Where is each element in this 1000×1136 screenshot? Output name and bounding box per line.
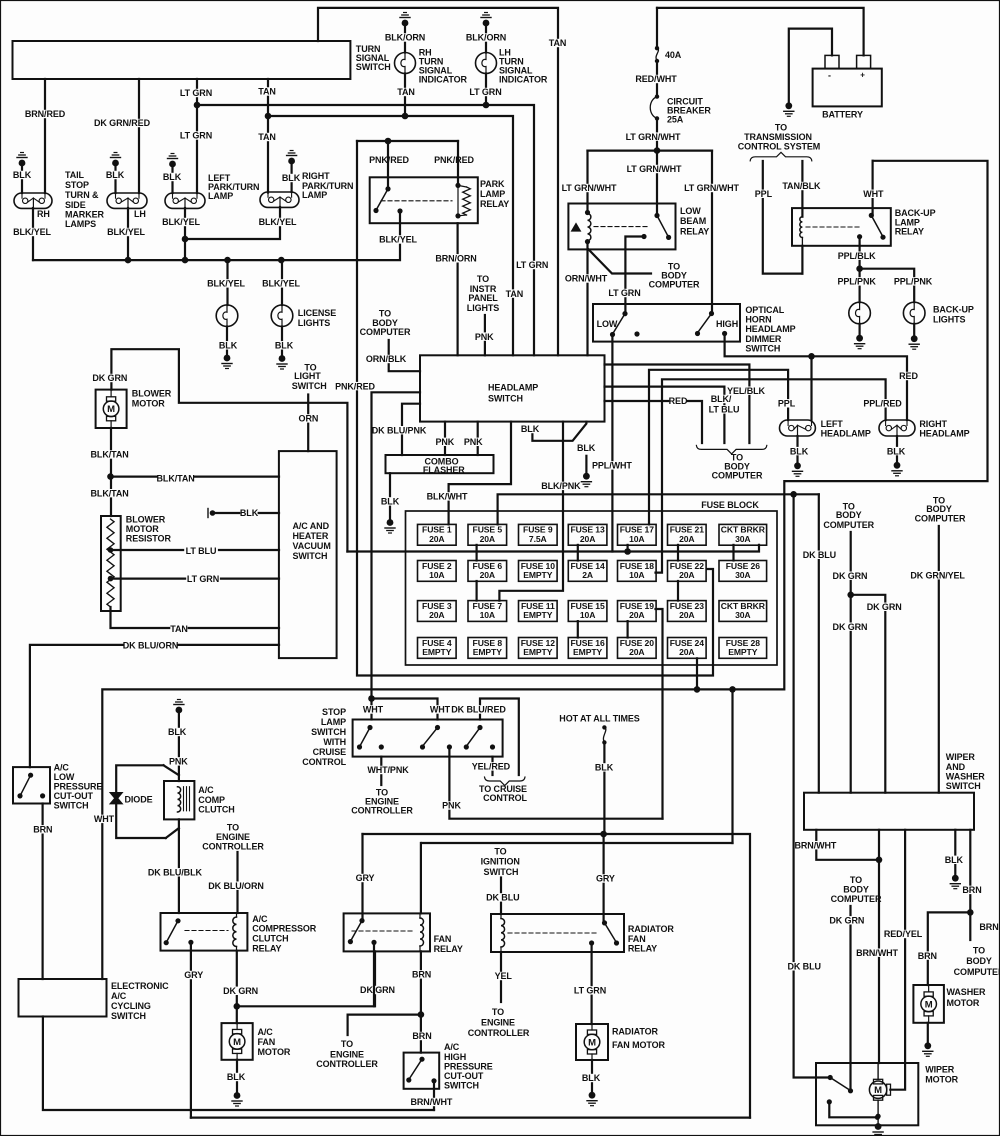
svg-text:A/C: A/C (54, 763, 70, 773)
battery box (813, 69, 882, 107)
wire PPL/PNK left (837, 269, 876, 303)
wire LT GRN below LH indicator (469, 74, 503, 106)
svg-text:ORN: ORN (299, 414, 319, 424)
label TO BODY COMPUTER dk grn (823, 502, 874, 531)
svg-text:BODY: BODY (843, 885, 869, 895)
node high beam (808, 353, 815, 360)
svg-text:COMPUTER: COMPUTER (831, 894, 882, 904)
ac fan relay dashed (352, 930, 412, 932)
svg-text:TO: TO (494, 847, 506, 857)
ac low pressure contacts (17, 773, 45, 799)
node RH indicator join (402, 113, 409, 120)
svg-text:DK GRN: DK GRN (360, 985, 395, 995)
combo flasher box (386, 455, 494, 473)
svg-text:A/C AND: A/C AND (293, 521, 330, 531)
svg-text:DK GRN: DK GRN (829, 916, 864, 926)
wire BRN wiper (962, 830, 981, 913)
radiator fan motor (576, 1024, 608, 1060)
diode loop (116, 765, 179, 838)
wire BRN/WHT wiper motor (856, 830, 898, 1063)
svg-text:10A: 10A (480, 610, 495, 620)
wire BLK license 2 (275, 327, 294, 356)
ground lamp LH (111, 153, 121, 194)
svg-text:30A: 30A (735, 610, 750, 620)
svg-text:MARKER: MARKER (65, 210, 104, 220)
svg-text:BLK/ORN: BLK/ORN (385, 33, 425, 43)
ground ac fan (232, 1092, 242, 1106)
svg-text:COMPUTER: COMPUTER (823, 520, 874, 530)
svg-text:PNK: PNK (435, 437, 454, 447)
svg-text:20A: 20A (679, 534, 694, 544)
svg-text:BLK: BLK (790, 446, 809, 456)
wire BLK/PNK (499, 422, 581, 601)
svg-text:DK BLU: DK BLU (803, 550, 836, 560)
svg-text:DK GRN: DK GRN (867, 602, 902, 612)
label BACK-UP LAMP RELAY (895, 208, 936, 237)
svg-text:LT GRN: LT GRN (608, 288, 640, 298)
svg-text:BRN: BRN (33, 825, 52, 835)
svg-text:LIGHTS: LIGHTS (298, 318, 330, 328)
svg-text:COMP: COMP (198, 795, 225, 805)
svg-text:BLK/ORN: BLK/ORN (466, 33, 506, 43)
svg-text:VACUUM: VACUUM (293, 541, 331, 551)
clutch relay dashed (185, 930, 228, 932)
svg-text:SWITCH: SWITCH (488, 394, 523, 404)
label TO INSTR PANEL LIGHTS (467, 274, 499, 313)
svg-text:RELAY: RELAY (628, 944, 657, 954)
wire DK GRN blower feed (92, 349, 347, 551)
wire LT GRN/WHT to relay switch (627, 151, 682, 216)
wire fuse block feed LT BLU (347, 545, 759, 552)
svg-text:RADIATOR: RADIATOR (628, 924, 674, 934)
low beam relay switch (641, 213, 671, 240)
svg-text:M: M (233, 1037, 241, 1048)
wire BRN low pressure (33, 804, 52, 980)
svg-text:2A: 2A (582, 570, 593, 580)
svg-text:ORN/WHT: ORN/WHT (565, 274, 608, 284)
svg-text:PARK: PARK (480, 179, 505, 189)
radiator fan relay coil (501, 914, 505, 952)
svg-text:BLK/WHT: BLK/WHT (427, 492, 468, 502)
svg-text:BLK: BLK (13, 170, 32, 180)
wire LT GRN/WHT spread (588, 150, 713, 152)
svg-text:DK BLU/PNK: DK BLU/PNK (372, 425, 427, 435)
node DK GRN (234, 1003, 241, 1010)
svg-text:MOTOR: MOTOR (132, 399, 165, 409)
svg-text:TAN: TAN (397, 87, 415, 97)
wire fuse21-fuse22 (677, 545, 679, 561)
svg-text:PPL/PNK: PPL/PNK (837, 277, 876, 287)
label FAN RELAY (434, 934, 463, 954)
wire WHT stop lamp 2 (372, 699, 438, 720)
wire PPL (755, 161, 803, 274)
svg-text:+: + (860, 71, 865, 80)
wire DK GRN wiper (833, 532, 868, 793)
svg-text:20A: 20A (429, 534, 444, 544)
svg-text:COMPUTER: COMPUTER (712, 471, 763, 481)
svg-text:TAN/BLK: TAN/BLK (782, 181, 821, 191)
wiper motor symbol (869, 1079, 890, 1100)
circuit breaker 25A (650, 94, 711, 124)
wire RED/YEL (884, 830, 923, 1090)
wire BRN fan relay coil (420, 843, 422, 913)
label BLK lamp RH (13, 170, 32, 180)
wire DK BLU/BLK (148, 819, 203, 913)
svg-text:TO: TO (477, 274, 489, 284)
svg-text:LIGHT: LIGHT (294, 371, 321, 381)
wire WHT fuse feed (498, 494, 819, 524)
wire WHT into back-up relay (863, 161, 884, 216)
node WHT stop lamp (368, 695, 375, 702)
svg-text:MOTOR: MOTOR (258, 1047, 291, 1057)
label TO ENGINE CONTROLLER yel (468, 1007, 530, 1038)
label BACK-UP LIGHTS (933, 305, 974, 325)
wire BRN cycling to H1 (43, 1017, 434, 1111)
left headlamp (780, 420, 816, 436)
node GRY bus (600, 831, 607, 838)
label RIGHT HEADLAMP (919, 419, 969, 439)
svg-text:BLK: BLK (163, 172, 182, 182)
wire H2 rail (191, 1116, 750, 1118)
park lamp relay box (370, 177, 478, 223)
wire fuse22-fuse23 (677, 581, 679, 601)
ac fan relay coil (420, 913, 424, 951)
wire DK GRN to fan relay (237, 951, 395, 1006)
svg-text:LT GRN: LT GRN (574, 986, 606, 996)
svg-text:40A: 40A (665, 50, 682, 60)
svg-text:WASHER: WASHER (946, 771, 986, 781)
wire DK BLU/PNK (372, 404, 427, 455)
svg-text:YEL: YEL (495, 971, 513, 981)
svg-text:25A: 25A (667, 115, 684, 125)
low beam relay box (568, 204, 675, 250)
wire BRN/ORN (435, 223, 476, 355)
svg-text:RELAY: RELAY (480, 199, 509, 209)
wire fuse17 to bus (626, 545, 628, 552)
svg-text:LT GRN/WHT: LT GRN/WHT (627, 164, 682, 174)
svg-text:PPL/BLK: PPL/BLK (838, 251, 876, 261)
ground A/C comp clutch (174, 700, 184, 782)
svg-text:BRN/ORN: BRN/ORN (435, 254, 476, 264)
wire DK BLU wiper motor (787, 494, 830, 1077)
wire BLK flasher (381, 473, 400, 519)
wire ORN/BLK (366, 340, 420, 371)
electronic ac cycling switch box (19, 979, 107, 1017)
wire YEL/RED (472, 757, 511, 775)
node left park (182, 236, 189, 243)
svg-text:DIMMER: DIMMER (745, 334, 781, 344)
label BLK left park (163, 172, 182, 182)
svg-text:EMPTY: EMPTY (422, 647, 451, 657)
wire TAN below RH indicator (397, 74, 415, 117)
svg-text:BRN: BRN (979, 922, 998, 932)
svg-text:A/C: A/C (252, 914, 268, 924)
svg-text:BRN/WHT: BRN/WHT (411, 1097, 453, 1107)
svg-text:BLK: BLK (227, 1072, 246, 1082)
svg-text:DK BLU/BLK: DK BLU/BLK (148, 868, 203, 878)
wire BRN washer (918, 912, 971, 985)
fuse grid (418, 524, 767, 658)
svg-text:TO: TO (227, 823, 239, 833)
park lamp relay switch (373, 186, 402, 213)
wire BLK/YEL left park (162, 208, 200, 239)
fuse hot at all times (602, 725, 606, 744)
wire to right park lamp bottom (185, 207, 280, 239)
svg-text:20A: 20A (679, 610, 694, 620)
wire BLK stub to ground (577, 443, 596, 473)
wire PNK stop lamp (442, 747, 662, 819)
svg-text:RELAY: RELAY (434, 944, 463, 954)
svg-text:M: M (588, 1037, 596, 1048)
svg-text:RESISTOR: RESISTOR (126, 534, 172, 544)
wire TAN/BLK (782, 161, 821, 217)
label LICENSE LIGHTS (298, 308, 336, 328)
label COMBO FLASHER (423, 457, 465, 476)
svg-text:DK GRN/YEL: DK GRN/YEL (910, 570, 965, 580)
svg-text:ORN/BLK: ORN/BLK (366, 354, 407, 364)
label A/C HIGH PRESSURE CUT-OUT SWITCH (444, 1042, 493, 1090)
svg-text:CRUISE: CRUISE (313, 747, 347, 757)
svg-text:TAN: TAN (258, 87, 276, 97)
wire YEL (495, 952, 513, 1002)
svg-text:BLK/TAN: BLK/TAN (157, 474, 195, 484)
svg-text:INDICATOR: INDICATOR (499, 75, 548, 85)
svg-text:YEL/BLK: YEL/BLK (727, 386, 765, 396)
svg-text:BLK: BLK (240, 508, 259, 518)
node fuse24 bus (694, 686, 701, 693)
wire ORN/WHT (565, 242, 608, 356)
svg-text:RELAY: RELAY (895, 227, 924, 237)
wire LT GRN/WHT dimmer high (684, 151, 739, 314)
ground right headlamp (892, 462, 902, 476)
wire BLK/LT BLU (605, 387, 741, 443)
svg-text:LT GRN: LT GRN (187, 574, 219, 584)
svg-text:GRY: GRY (184, 970, 203, 980)
svg-text:LAMP: LAMP (302, 190, 327, 200)
svg-text:BRN/RED: BRN/RED (25, 109, 66, 119)
svg-text:WITH: WITH (323, 737, 346, 747)
wire PPL/PNK right (860, 269, 933, 303)
wire PNK/RED into relay coil (457, 141, 459, 186)
svg-text:BLK/YEL: BLK/YEL (259, 217, 297, 227)
wire LT GRN horizontal to headlamp switch (197, 105, 549, 355)
svg-text:PPL/WHT: PPL/WHT (592, 461, 632, 471)
node PPL/BLK (856, 265, 863, 272)
wire RED/WHT (635, 61, 677, 97)
svg-text:LH: LH (134, 209, 146, 219)
svg-text:PNK/RED: PNK/RED (335, 381, 375, 391)
wire ckt brkr to fuse26 (732, 545, 734, 561)
wire to engine controller elbow (348, 1015, 421, 1035)
ground left headlamp (793, 462, 803, 476)
ground right park lamp (287, 151, 297, 193)
ac high pressure contacts (406, 1057, 436, 1084)
license light bulb 1 (216, 305, 238, 327)
svg-text:EMPTY: EMPTY (473, 647, 502, 657)
node LH indicator join (483, 102, 490, 109)
svg-text:HEADLAMP: HEADLAMP (919, 429, 969, 439)
wire WHT stop lamp 1 (370, 699, 372, 720)
svg-text:PRESSURE: PRESSURE (444, 1061, 493, 1071)
wiper motor park elbow (829, 1102, 880, 1120)
svg-text:LT GRN/WHT: LT GRN/WHT (626, 132, 681, 142)
label WHT 1 (363, 705, 384, 715)
wire BLK wiper switch (945, 830, 964, 875)
svg-text:TO: TO (492, 1007, 504, 1017)
wire LT GRN radiator motor (573, 943, 607, 1024)
clutch relay coil (233, 913, 237, 951)
wire TAN from switch (258, 79, 276, 193)
svg-text:BRN: BRN (918, 951, 937, 961)
indicator bulb RH (395, 53, 416, 74)
svg-text:BRN/WHT: BRN/WHT (856, 948, 898, 958)
svg-text:BACK-UP: BACK-UP (895, 208, 936, 218)
back-up relay switch (857, 213, 886, 240)
svg-text:LT GRN: LT GRN (469, 87, 501, 97)
wire BRN/WHT high pressure (411, 1081, 453, 1110)
svg-text:M: M (925, 999, 933, 1010)
label OPTICAL HORN HEADLAMP DIMMER SWITCH (745, 305, 795, 353)
dimmer high contacts (695, 311, 727, 336)
svg-text:BRN: BRN (962, 885, 981, 895)
svg-text:BLK/TAN: BLK/TAN (91, 488, 129, 498)
svg-text:RH: RH (37, 209, 50, 219)
park lamp relay dashed link (381, 200, 452, 202)
svg-text:BRN: BRN (412, 970, 431, 980)
label PARK LAMP RELAY (480, 179, 509, 209)
svg-text:LAMPS: LAMPS (65, 219, 96, 229)
node bus 1 (125, 257, 132, 264)
splice BLK (208, 508, 279, 518)
node fuse 17 tap (624, 548, 631, 555)
svg-text:MOTOR: MOTOR (126, 524, 159, 534)
label HIGH (716, 319, 738, 329)
wire high beam RED distribution (725, 334, 919, 421)
svg-text:LOW: LOW (597, 319, 618, 329)
svg-text:ENGINE: ENGINE (481, 1018, 515, 1028)
svg-text:SWITCH: SWITCH (484, 867, 519, 877)
wiper and washer switch box (804, 793, 974, 830)
label LH (134, 209, 146, 219)
ac fan motor (222, 1023, 253, 1060)
ground flasher (385, 519, 395, 533)
ground license 2 (277, 355, 287, 369)
label RIGHT PARK/TURN LAMP (302, 171, 353, 200)
label LEFT HEADLAMP (821, 419, 871, 439)
stop lamp contacts (357, 725, 495, 750)
label FUSE BLOCK (701, 500, 759, 510)
svg-text:TO: TO (850, 875, 862, 885)
svg-text:TAN: TAN (506, 289, 524, 299)
svg-text:20A: 20A (580, 534, 595, 544)
wire YEL/BLK (605, 365, 766, 444)
label TAIL STOP TURN block (65, 170, 104, 229)
park lamp relay coil (455, 183, 470, 219)
wire fuse19 elbow (656, 609, 663, 819)
label HOT AT ALL TIMES (556, 714, 644, 724)
label TO ENGINE CONTROLLER brn (316, 1039, 378, 1069)
tail lamp LH (107, 193, 147, 208)
svg-text:HIGH: HIGH (444, 1052, 466, 1062)
svg-text:CLUTCH: CLUTCH (198, 804, 234, 814)
svg-text:RADIATOR: RADIATOR (612, 1026, 658, 1036)
wire BLK/YEL bus (33, 211, 417, 260)
svg-text:BRN: BRN (412, 1031, 431, 1041)
svg-text:SWITCH: SWITCH (745, 343, 780, 353)
node LT GRN/WHT (654, 147, 661, 154)
svg-text:CONTROL SYSTEM: CONTROL SYSTEM (738, 141, 820, 151)
svg-text:HORN: HORN (745, 315, 771, 325)
label A/C COMP CLUTCH (198, 785, 234, 814)
svg-text:TURN &: TURN & (65, 190, 99, 200)
label TO BODY COMPUTER low beam (649, 262, 700, 290)
dimmer low contacts (610, 311, 640, 337)
label WHT 2 (430, 705, 451, 715)
svg-text:A/C: A/C (198, 785, 214, 795)
wire TAN resistor bottom (111, 607, 280, 634)
svg-text:FUSE BLOCK: FUSE BLOCK (701, 500, 759, 510)
svg-text:INDICATOR: INDICATOR (419, 75, 468, 85)
ac high pressure cut-out switch box (404, 1053, 440, 1089)
blower motor (96, 390, 127, 428)
blower motor resistor box (101, 516, 121, 611)
label PNK clutch (169, 757, 188, 767)
svg-text:EMPTY: EMPTY (573, 647, 602, 657)
svg-text:BACK-UP: BACK-UP (933, 305, 974, 315)
svg-text:SIDE: SIDE (65, 200, 86, 210)
svg-text:HOT AT ALL TIMES: HOT AT ALL TIMES (559, 714, 639, 724)
svg-text:BLK: BLK (219, 341, 238, 351)
svg-text:SWITCH: SWITCH (946, 781, 981, 791)
blower resistor element (107, 519, 114, 607)
wire PNK flasher 2 (464, 422, 483, 455)
svg-text:RIGHT: RIGHT (919, 419, 947, 429)
wire fuse19-fuse20 (626, 621, 628, 637)
svg-text:WIPER: WIPER (946, 752, 976, 762)
ground wiper motor (873, 1123, 883, 1136)
label TO ENGINE CONTROLLER clutch (202, 823, 264, 852)
wire fuse13-fuse14 (577, 545, 579, 561)
ground battery (784, 102, 794, 116)
svg-text:PPL/RED: PPL/RED (863, 399, 902, 409)
svg-text:LT BLU: LT BLU (709, 405, 740, 415)
svg-text:BLK: BLK (168, 727, 187, 737)
svg-text:COMPUTER: COMPUTER (360, 327, 411, 337)
svg-text:A/C: A/C (111, 991, 127, 1001)
svg-text:LICENSE: LICENSE (298, 308, 336, 318)
svg-text:PNK: PNK (464, 437, 483, 447)
ground headlamp switch (581, 473, 591, 487)
wire BLK hot (595, 742, 614, 833)
label RADIATOR FAN RELAY (628, 924, 674, 953)
node bus 4 (278, 257, 285, 264)
wire wiper motor bottom (876, 1100, 881, 1126)
ground back-up 2 (909, 324, 919, 349)
label BLK/YEL right park (259, 217, 297, 227)
svg-text:LAMP: LAMP (321, 717, 346, 727)
svg-text:LAMP: LAMP (208, 191, 233, 201)
ac low pressure cut-out switch box (13, 767, 50, 803)
wire GRY clutch relay (184, 942, 203, 1117)
label ELECTRONIC A/C CYCLING SWITCH (111, 981, 169, 1021)
svg-text:PNK: PNK (475, 332, 494, 342)
optical horn headlamp dimmer switch box (593, 304, 740, 342)
wire BRN body computer (970, 912, 998, 940)
ac comp clutch box (164, 781, 194, 819)
brace transmission (750, 152, 812, 161)
wire GRY radiator (596, 834, 615, 923)
svg-text:DK GRN: DK GRN (92, 373, 127, 383)
